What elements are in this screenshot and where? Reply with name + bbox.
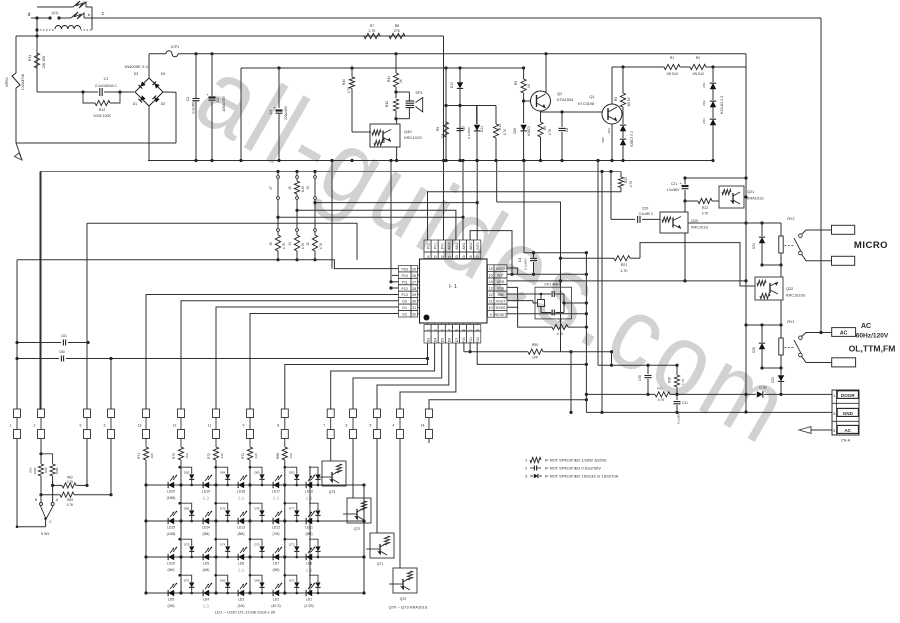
svg-text:I- 1: I- 1 (449, 284, 457, 290)
svg-text:( , ): ( , ) (203, 496, 208, 500)
svg-text:Q22: Q22 (786, 287, 793, 291)
svg-text:R9: R9 (436, 127, 440, 131)
svg-text:LD1: LD1 (306, 598, 312, 602)
svg-text:4.7K: 4.7K (301, 242, 305, 249)
svg-text:J7: J7 (269, 186, 273, 190)
svg-text:22: 22 (441, 255, 445, 259)
svg-text:240: 240 (220, 453, 224, 458)
svg-text:RY2: RY2 (787, 217, 794, 221)
svg-text:(15M): (15M) (167, 496, 176, 500)
svg-text:K2BC3 X 2: K2BC3 X 2 (630, 131, 634, 147)
svg-text:D82: D82 (289, 471, 295, 475)
svg-text:R62: R62 (67, 476, 73, 480)
svg-text:KRA101S: KRA101S (747, 197, 764, 201)
svg-text:ZD3: ZD3 (702, 118, 706, 124)
svg-text:LD20: LD20 (167, 490, 175, 494)
svg-text:P01: P01 (434, 243, 438, 249)
svg-text:Q70: Q70 (400, 597, 407, 601)
svg-text:( , ): ( , ) (238, 568, 243, 572)
svg-text:13: 13 (138, 424, 142, 428)
svg-text:LD19: LD19 (202, 490, 210, 494)
svg-text:(2 0S): (2 0S) (304, 604, 313, 608)
svg-text:C5: C5 (269, 110, 273, 115)
svg-text:R11: R11 (28, 55, 32, 61)
svg-text:P11: P11 (402, 280, 408, 284)
svg-text:12: 12 (489, 293, 493, 297)
svg-text:XOUT: XOUT (496, 300, 507, 304)
svg-text:100K: 100K (55, 467, 59, 474)
svg-text:D69: D69 (220, 579, 226, 583)
svg-text:C31: C31 (682, 401, 688, 405)
svg-text:D2: D2 (402, 313, 407, 317)
svg-text:ZD1: ZD1 (702, 82, 706, 88)
svg-text:100: 100 (150, 453, 154, 458)
svg-text:2.2u/160VA C: 2.2u/160VA C (95, 84, 117, 88)
svg-text:11: 11 (489, 300, 493, 304)
svg-text:C3: C3 (216, 98, 220, 103)
svg-text:ZD8: ZD8 (513, 128, 517, 134)
svg-text:5: 5 (370, 424, 372, 428)
svg-text:R22: R22 (702, 206, 708, 210)
svg-text:Q70 -- Q73 KRA101S: Q70 -- Q73 KRA101S (389, 605, 428, 610)
svg-text:LD9: LD9 (203, 562, 209, 566)
svg-text:INT1: INT1 (476, 242, 480, 249)
svg-text:C7: C7 (462, 126, 466, 130)
svg-text:12: 12 (173, 424, 177, 428)
svg-text:S W1: S W1 (41, 532, 50, 536)
svg-text:10GA471K: 10GA471K (21, 73, 25, 90)
svg-text:LD1 -- LD20 LTL-1CHE-011A x 2: LD1 -- LD20 LTL-1CHE-011A x 20 (215, 610, 276, 615)
svg-text:P21: P21 (469, 337, 473, 343)
svg-text:P02: P02 (426, 243, 430, 249)
svg-text:( , ): ( , ) (273, 496, 278, 500)
svg-text:C4: C4 (518, 258, 522, 262)
svg-text:(10M): (10M) (167, 532, 176, 536)
svg-text:D6: D6 (448, 338, 452, 342)
svg-text:KRC101S: KRC101S (691, 226, 708, 230)
svg-text:D1: D1 (402, 306, 407, 310)
svg-text:D79: D79 (220, 507, 226, 511)
svg-text:R20: R20 (624, 177, 628, 183)
svg-text:4.7K: 4.7K (658, 398, 665, 402)
svg-text:R6: R6 (543, 126, 547, 130)
svg-text:R42: R42 (385, 101, 389, 107)
svg-text:ICP1: ICP1 (171, 45, 179, 49)
svg-text:LD6: LD6 (306, 562, 312, 566)
svg-text:4: 4 (448, 329, 452, 331)
svg-text:6.2K: 6.2K (301, 185, 305, 192)
svg-text:AC: AC (840, 331, 848, 337)
svg-text:3: 3 (441, 329, 445, 331)
svg-text:D4: D4 (434, 338, 438, 342)
svg-text:(2M): (2M) (168, 604, 175, 608)
svg-text:H26C1: H26C1 (527, 126, 531, 136)
svg-text:R7: R7 (370, 24, 375, 28)
svg-text:5: 5 (455, 329, 459, 331)
svg-text:6: 6 (462, 329, 466, 331)
svg-text:R30: R30 (668, 377, 672, 383)
svg-text:2.7K: 2.7K (369, 29, 377, 33)
svg-text:29: 29 (412, 293, 416, 297)
svg-text:GND: GND (843, 411, 854, 416)
svg-text:C20: C20 (642, 207, 649, 211)
svg-text:C2: C2 (186, 97, 190, 102)
svg-text:(1M): (1M) (238, 604, 245, 608)
svg-text:4.7K: 4.7K (503, 128, 507, 135)
svg-text:LD3: LD3 (238, 598, 244, 602)
svg-text:D67: D67 (289, 579, 295, 583)
svg-text:(4M): (4M) (203, 568, 210, 572)
svg-text:R13: R13 (498, 124, 502, 130)
svg-text:( , ): ( , ) (203, 604, 208, 608)
svg-text:220u/16V: 220u/16V (284, 105, 288, 120)
svg-text:6: 6 (346, 424, 348, 428)
svg-text:11: 11 (208, 424, 212, 428)
svg-text:HZ11A3 X 3: HZ11A3 X 3 (720, 96, 724, 114)
svg-text:10: 10 (489, 306, 493, 310)
svg-text:D2: D2 (161, 102, 166, 106)
svg-text:100K: 100K (33, 467, 37, 474)
svg-text:R8: R8 (395, 24, 400, 28)
svg-text:( , ): ( , ) (306, 496, 311, 500)
svg-text:7: 7 (469, 329, 473, 331)
svg-text:LD2: LD2 (273, 598, 279, 602)
svg-text:D3: D3 (426, 338, 430, 342)
svg-text:25: 25 (412, 267, 416, 271)
svg-text:R31: R31 (657, 387, 663, 391)
svg-text:D70: D70 (184, 579, 190, 583)
svg-text:4.7K: 4.7K (621, 269, 629, 273)
svg-text:17: 17 (476, 255, 480, 259)
svg-text:27K: 27K (441, 132, 445, 139)
svg-text:LD8: LD8 (238, 562, 244, 566)
svg-text:( , ): ( , ) (306, 568, 311, 572)
svg-text:( , ): ( , ) (238, 496, 243, 500)
svg-text:R63: R63 (67, 498, 73, 502)
svg-text:9: 9 (80, 424, 82, 428)
svg-text:Q21: Q21 (747, 190, 754, 194)
svg-text:P20: P20 (462, 337, 466, 343)
svg-text:1.0u/50V: 1.0u/50V (667, 188, 681, 192)
svg-text:2: 2 (434, 329, 438, 331)
svg-text:XIN: XIN (498, 293, 504, 297)
svg-text:P22: P22 (476, 337, 480, 343)
svg-text:D22: D22 (771, 377, 775, 383)
svg-text:(8M): (8M) (238, 532, 245, 536)
svg-text:32: 32 (412, 313, 416, 317)
svg-text:LD15: LD15 (167, 526, 175, 530)
svg-text:DVSS: DVSS (496, 306, 506, 310)
svg-text:0.1u/50V: 0.1u/50V (192, 100, 196, 114)
svg-text:10K: 10K (532, 356, 539, 360)
svg-text:7: 7 (323, 424, 325, 428)
svg-text:1000u/35V: 1000u/35V (222, 95, 226, 111)
svg-text:R12: R12 (99, 108, 106, 112)
svg-text:INTO: INTO (496, 267, 505, 271)
svg-text:C8: C8 (565, 128, 569, 132)
svg-text:J3: J3 (306, 186, 310, 190)
svg-text:IF NOT SPECIFIED 0.01uF50V: IF NOT SPECIFIED 0.01uF50V (545, 466, 601, 471)
svg-text:OL,TTM,FM: OL,TTM,FM (849, 344, 896, 354)
svg-text:13: 13 (489, 287, 493, 291)
svg-text:C30: C30 (638, 375, 642, 381)
svg-text:(6M): (6M) (306, 532, 313, 536)
svg-text:R60: R60 (44, 467, 48, 473)
svg-text:Q40: Q40 (404, 129, 412, 134)
svg-text:26: 26 (412, 274, 416, 278)
svg-text:VRS1: VRS1 (5, 77, 9, 87)
svg-text:D84: D84 (220, 471, 226, 475)
svg-text:24: 24 (426, 255, 430, 259)
svg-text:AC: AC (861, 323, 871, 330)
svg-text:D75: D75 (184, 543, 190, 547)
svg-text:P03: P03 (401, 267, 407, 271)
svg-text:LD17: LD17 (272, 490, 280, 494)
svg-text:1: 1 (426, 329, 430, 331)
svg-text:4.7K: 4.7K (702, 212, 709, 216)
svg-text:R61: R61 (29, 467, 33, 473)
svg-text:J5: J5 (288, 186, 292, 190)
svg-text:8: 8 (277, 424, 279, 428)
svg-text:AIN2: AIN2 (455, 242, 459, 250)
svg-text:9: 9 (490, 313, 492, 317)
svg-text:0.1u/50V: 0.1u/50V (467, 127, 471, 139)
svg-text:ZD4: ZD4 (607, 128, 611, 134)
svg-text:4.7K: 4.7K (319, 242, 323, 249)
svg-text:ZD2: ZD2 (702, 100, 706, 106)
svg-text:R73: R73 (172, 453, 176, 459)
svg-text:AIN3: AIN3 (448, 242, 452, 250)
svg-text:28: 28 (412, 287, 416, 291)
svg-text:D10: D10 (450, 82, 454, 88)
svg-text:D0: D0 (402, 300, 407, 304)
svg-text:4.7K: 4.7K (629, 180, 633, 187)
svg-text:LD11: LD11 (305, 526, 313, 530)
svg-text:1: 1 (10, 424, 12, 428)
svg-text:LD18: LD18 (237, 490, 245, 494)
svg-text:D72: D72 (289, 543, 295, 547)
svg-text:IF NOT SPECIFIED 1/16W J(x5%): IF NOT SPECIFIED 1/16W J(x5%) (545, 458, 607, 463)
svg-text:R3: R3 (614, 97, 618, 101)
svg-text:9: 9 (243, 424, 245, 428)
svg-text:4: 4 (393, 424, 395, 428)
svg-text:4.7K: 4.7K (681, 379, 685, 385)
svg-text:R2: R2 (696, 56, 701, 60)
svg-text:(40 S): (40 S) (271, 604, 280, 608)
svg-text:LD16: LD16 (305, 490, 313, 494)
svg-text:4.7K: 4.7K (282, 242, 286, 249)
svg-text:(U1): (U1) (52, 11, 59, 15)
svg-text:D73: D73 (254, 543, 260, 547)
svg-text:C21: C21 (671, 182, 677, 186)
svg-text:R71: R71 (241, 453, 245, 459)
svg-text:1W 510: 1W 510 (666, 72, 678, 76)
svg-text:4.7K: 4.7K (347, 86, 351, 93)
svg-text:14: 14 (421, 424, 425, 428)
svg-text:1W 1K: 1W 1K (627, 96, 631, 106)
svg-text:18: 18 (469, 255, 473, 259)
svg-text:R40: R40 (342, 79, 346, 85)
svg-text:VDD: VDD (497, 280, 505, 284)
svg-text:DOOR: DOOR (841, 393, 855, 398)
svg-text:D11: D11 (480, 126, 484, 132)
svg-text:2: 2 (34, 424, 36, 428)
svg-text:D1: D1 (133, 102, 138, 106)
svg-text:LD12: LD12 (272, 526, 280, 530)
svg-text:KRC101SS: KRC101SS (786, 294, 806, 298)
svg-text:C60: C60 (59, 350, 65, 354)
svg-text:0.1u/50 V: 0.1u/50 V (639, 212, 654, 216)
svg-text:1/2W 100K: 1/2W 100K (93, 114, 111, 118)
svg-text:R5: R5 (514, 81, 518, 85)
svg-text:KRC101S: KRC101S (404, 135, 422, 140)
svg-text:Q20: Q20 (691, 219, 698, 223)
svg-text:MICRO: MICRO (854, 240, 888, 251)
svg-text:19: 19 (462, 255, 466, 259)
svg-text:D3: D3 (134, 72, 139, 76)
svg-text:d: d (28, 12, 31, 18)
svg-text:D77: D77 (289, 507, 295, 511)
svg-text:SP1: SP1 (415, 91, 422, 95)
svg-text:Q72: Q72 (354, 527, 361, 531)
svg-text:(9M): (9M) (203, 532, 210, 536)
svg-text:R41: R41 (387, 76, 391, 82)
svg-text:J6: J6 (269, 242, 273, 246)
svg-text:P12: P12 (401, 287, 407, 291)
svg-text:0.1u/50V: 0.1u/50V (677, 412, 681, 424)
svg-text:D80: D80 (184, 507, 190, 511)
svg-text:27K: 27K (394, 29, 401, 33)
svg-text:21: 21 (448, 255, 452, 259)
svg-text:(5M): (5M) (168, 568, 175, 572)
svg-text:R21: R21 (621, 263, 628, 267)
svg-text:R68: R68 (276, 453, 280, 459)
svg-text:D4: D4 (161, 72, 166, 76)
svg-text:P00: P00 (441, 243, 445, 249)
svg-text:CN-A: CN-A (841, 439, 851, 443)
svg-text:1N4005E X 4: 1N4005E X 4 (124, 64, 149, 69)
svg-text:30: 30 (412, 300, 416, 304)
svg-text:R74: R74 (137, 453, 141, 459)
svg-text:LD4: LD4 (203, 598, 209, 602)
svg-text:P13: P13 (401, 293, 407, 297)
svg-text:VSS: VSS (497, 287, 505, 291)
svg-text:LD5: LD5 (168, 598, 174, 602)
svg-text:31: 31 (412, 306, 416, 310)
svg-text:Q71: Q71 (377, 562, 384, 566)
svg-text:23: 23 (434, 255, 438, 259)
svg-text:ZD5: ZD5 (601, 137, 605, 143)
svg-text:D7: D7 (455, 338, 459, 342)
svg-text:LD7: LD7 (273, 562, 279, 566)
svg-text:8: 8 (476, 329, 480, 331)
svg-text:D5: D5 (441, 338, 445, 342)
svg-text:R50: R50 (532, 343, 539, 347)
svg-text:N.P: N.P (498, 273, 505, 277)
svg-text:60Hz/120V: 60Hz/120V (856, 333, 889, 340)
svg-text:16: 16 (489, 267, 493, 271)
svg-text:IF NOT SPECIFIED 1SS133 or 1SS: IF NOT SPECIFIED 1SS133 or 1SS270A (545, 474, 619, 479)
svg-text:C1: C1 (104, 77, 109, 81)
svg-text:R72: R72 (207, 453, 211, 459)
svg-text:AIN1: AIN1 (462, 242, 466, 250)
svg-text:AIN0: AIN0 (469, 242, 473, 250)
svg-text:(3M): (3M) (273, 568, 280, 572)
svg-text:J2: J2 (306, 242, 310, 246)
svg-text:R1: R1 (670, 56, 675, 60)
svg-text:D20: D20 (752, 347, 756, 353)
svg-text:Q73: Q73 (329, 490, 336, 494)
svg-text:3: 3 (104, 424, 106, 428)
svg-text:2W 100: 2W 100 (42, 56, 46, 68)
svg-text:(7M): (7M) (273, 532, 280, 536)
svg-text:15: 15 (489, 273, 493, 277)
svg-text:430: 430 (289, 453, 293, 458)
svg-text:D 30: D 30 (759, 386, 766, 390)
svg-text:150: 150 (185, 453, 189, 458)
svg-text:14: 14 (489, 280, 493, 284)
svg-text:LD13: LD13 (237, 526, 245, 530)
svg-text:RY1: RY1 (787, 320, 794, 324)
svg-text:D85: D85 (184, 471, 190, 475)
svg-text:D68: D68 (254, 579, 260, 583)
svg-text:D83: D83 (254, 471, 260, 475)
svg-text:1W 510: 1W 510 (692, 72, 704, 76)
svg-text:RESET: RESET (495, 313, 508, 317)
svg-text:J4: J4 (288, 242, 292, 246)
svg-text:20: 20 (455, 255, 459, 259)
svg-text:4.7K: 4.7K (548, 128, 552, 135)
svg-text:Q1: Q1 (589, 94, 595, 99)
svg-text:C61: C61 (61, 334, 67, 338)
svg-text:LD14: LD14 (202, 526, 210, 530)
svg-text:4.7K: 4.7K (67, 480, 74, 484)
svg-text:Q2: Q2 (557, 91, 563, 96)
svg-text:D74: D74 (220, 543, 226, 547)
svg-text:KTA1534: KTA1534 (557, 97, 574, 102)
svg-text:CF1 4MHz: CF1 4MHz (544, 283, 561, 287)
svg-text:4.7K: 4.7K (67, 503, 74, 507)
svg-text:P10: P10 (401, 274, 407, 278)
svg-text:0.1u/50V: 0.1u/50V (524, 258, 528, 270)
svg-text:LD10: LD10 (167, 562, 175, 566)
svg-text:D78: D78 (254, 507, 260, 511)
svg-text:AC: AC (844, 428, 851, 433)
svg-text:KTC3198: KTC3198 (578, 102, 594, 106)
svg-text:27: 27 (412, 280, 416, 284)
svg-text:D21: D21 (752, 243, 756, 249)
svg-text:330: 330 (254, 453, 258, 458)
